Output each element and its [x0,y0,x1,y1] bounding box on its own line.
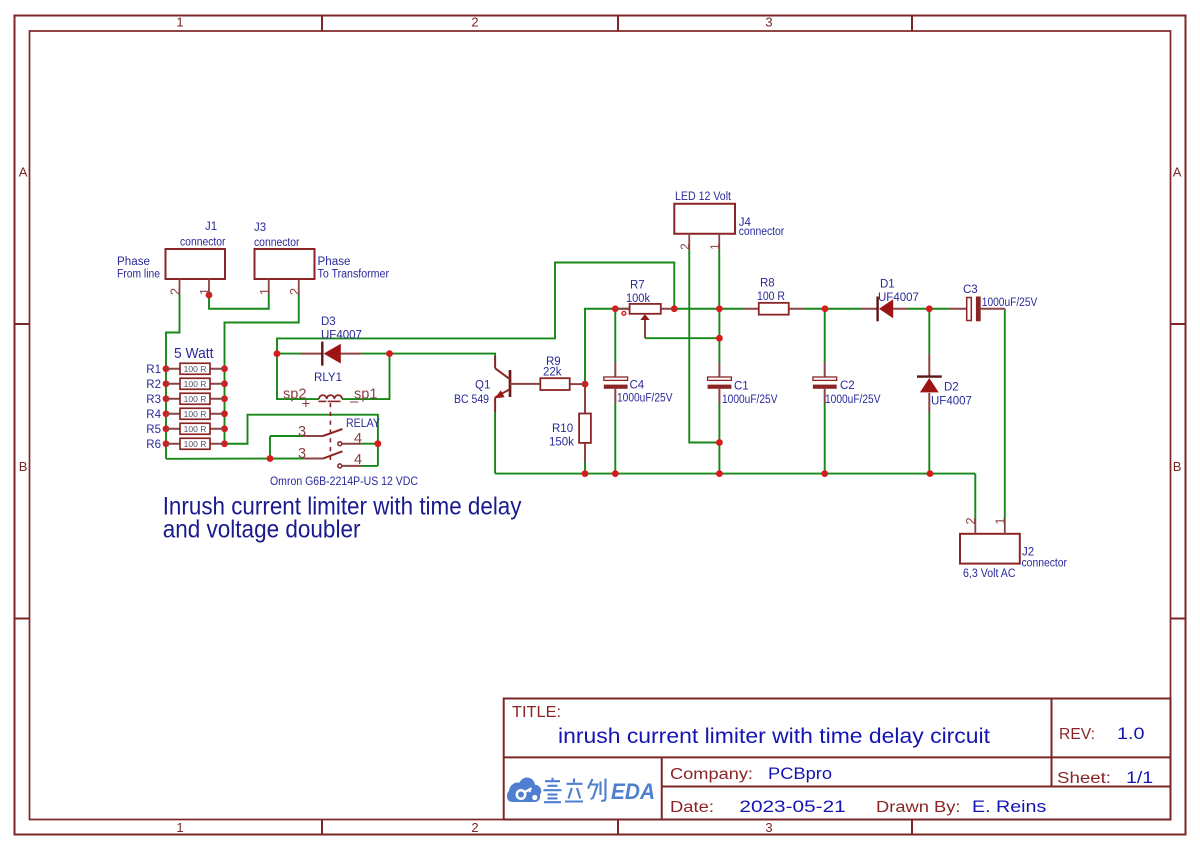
junction R6 left [163,440,170,447]
svg-text:REV:: REV: [1059,726,1095,743]
diode D3 [301,316,362,366]
svg-text:1: 1 [176,15,183,30]
svg-text:+: + [302,396,311,413]
resistor R9 [510,356,585,390]
svg-text:R3: R3 [146,394,161,406]
svg-text:E. Reins: E. Reins [972,797,1046,816]
svg-text:B: B [19,459,28,474]
svg-text:connector: connector [1022,558,1068,570]
junction rail D2 [927,470,934,477]
svg-text:22k: 22k [543,367,562,379]
svg-text:inrush current limiter with ti: inrush current limiter with time delay c… [558,725,990,748]
wire left bus to relay common [166,458,303,460]
svg-text:Company:: Company: [670,766,753,783]
wire coil right to D3 right node [342,354,390,400]
svg-text:To Transformer: To Transformer [318,269,390,281]
capacitor C1 [708,363,778,407]
svg-text:D3: D3 [321,316,336,328]
wire C3 right to J2 pin1 [1004,309,1006,519]
connector J2 [960,517,1067,580]
wire switch1 contact to vertical [361,443,378,445]
svg-text:Phase: Phase [318,256,351,268]
capacitor C2 [813,363,881,407]
wire D1 node to C3 [929,308,949,310]
connector J1 [166,221,226,295]
svg-text:BC 549: BC 549 [454,394,489,406]
svg-text:UF4007: UF4007 [878,292,919,304]
label Phase To Transformer [318,256,390,281]
svg-text:1000uF/25V: 1000uF/25V [722,394,778,406]
svg-text:2: 2 [168,288,183,295]
junction R6 right [221,440,228,447]
svg-text:100 R: 100 R [757,291,785,303]
junction D1-D2-C3 node [926,305,933,312]
wire relay switch1 left to switch2 [269,436,271,459]
wire D1 right lead to node [908,308,929,310]
junction R4 left [163,410,170,417]
capacitor C3 [949,284,1038,321]
svg-text:6,3 Volt AC: 6,3 Volt AC [963,568,1016,580]
svg-text:C4: C4 [630,380,645,392]
svg-text:1: 1 [710,243,722,249]
svg-text:R5: R5 [146,424,161,436]
svg-text:150k: 150k [549,437,574,449]
svg-text:1/1: 1/1 [1126,768,1153,787]
resistor R10 [549,388,591,462]
svg-text:2023-05-21: 2023-05-21 [739,797,845,816]
svg-text:J1: J1 [205,221,217,233]
svg-text:1: 1 [992,517,1007,524]
wire switch1 lead [270,435,303,437]
junction R2 right [221,380,228,387]
svg-text:3: 3 [298,424,306,440]
wire D3 left node up and right to R7 right node [277,263,674,354]
JLC EDA cloud mark [507,778,541,803]
svg-text:100 R: 100 R [184,424,207,434]
wire R7 right node to R8 [674,308,744,310]
svg-text:connector: connector [739,226,785,238]
junction R1 left [163,365,170,372]
label Phase From line [117,256,160,281]
svg-text:From line: From line [117,269,160,281]
relay RLY1 coil [283,372,378,462]
svg-text:TITLE:: TITLE: [512,704,561,721]
svg-text:RELAY: RELAY [346,418,380,430]
svg-text:R6: R6 [146,439,161,451]
wire switch2 contact to vertical [361,465,378,467]
svg-text:1: 1 [197,288,212,295]
wire J4 pin2 down to C1 bottom node [689,250,719,443]
junction R8 right node [822,305,829,312]
junction R4 right [221,410,228,417]
svg-text:Phase: Phase [117,256,150,268]
trimmer R7 [615,280,674,339]
wire R8 right to D1 [804,308,863,310]
transistor Q1 [454,356,510,412]
svg-text:EDA: EDA [611,779,655,804]
svg-text:Date:: Date: [670,799,714,816]
junction D3 cathode node [274,350,281,357]
wire R9 right node to R7 left node [585,309,630,384]
junction R9-R10 node [582,381,589,388]
wire Q1 emitter down to ground rail [494,412,496,474]
heading note [163,493,522,544]
svg-text:2: 2 [287,288,302,295]
junction R5 right [221,425,228,432]
junction rail C4 [612,470,619,477]
resistor R2 [146,378,224,391]
wire D3 right lead [361,353,390,355]
svg-text:5 Watt: 5 Watt [174,346,214,362]
wire D3 right node to Q1 collector [390,354,496,357]
junction rail C1 [716,470,723,477]
嘉立创 faux glyphs [544,778,606,802]
ground rail [495,473,975,475]
junction J4 pin1 node [716,305,723,312]
svg-text:100 R: 100 R [184,379,207,389]
svg-text:4: 4 [354,431,362,447]
svg-text:C1: C1 [734,381,749,393]
wire C4 branch [614,309,616,363]
logo [507,778,655,805]
svg-text:–: – [350,393,359,410]
wire J2 pin2 [974,474,976,519]
svg-text:2: 2 [471,15,478,30]
junction R3 left [163,395,170,402]
wire C4 bottom [614,403,616,474]
junction R7 right node [671,305,678,312]
wire R7 wiper to C1 node [645,337,719,339]
resistor R8 [744,278,804,315]
svg-text:RLY1: RLY1 [314,372,342,384]
svg-text:1: 1 [176,820,183,835]
wire D3 left lead [277,353,301,355]
wire C1 column [718,309,720,363]
svg-text:C2: C2 [840,380,855,392]
junction R1 right [221,365,228,372]
svg-text:1: 1 [257,288,272,295]
svg-text:1000uF/25V: 1000uF/25V [617,393,673,405]
wire D2 bottom to rail [928,412,930,474]
wire R6 to relay contacts [225,415,378,466]
svg-text:Drawn By:: Drawn By: [876,799,961,816]
resistor R1 [146,363,224,376]
svg-text:R4: R4 [146,409,161,421]
svg-text:A: A [19,165,28,180]
junction D3 anode node [386,350,393,357]
svg-text:100 R: 100 R [184,439,207,449]
resistor bank R1-R6 [146,363,224,451]
svg-text:2: 2 [963,517,978,524]
wire J1 pin1 to J3 pin1 [209,293,269,309]
svg-text:LED 12 Volt: LED 12 Volt [675,191,732,203]
svg-text:1.0: 1.0 [1117,724,1145,743]
diode D1 [862,279,919,322]
svg-text:A: A [1173,165,1182,180]
svg-text:D2: D2 [944,382,959,394]
junction relay contact 4 [375,440,382,447]
resistor R4 [146,408,224,421]
wire R10 top lead [584,384,586,389]
junction rail R10 [582,470,589,477]
junction R3 right [221,395,228,402]
wire J1 pin2 to left bus [166,293,180,459]
svg-text:Sheet:: Sheet: [1057,770,1111,787]
junction R7 wiper node [716,335,723,342]
svg-text:Omron G6B-2214P-US 12 VDC: Omron G6B-2214P-US 12 VDC [270,476,418,488]
wire C2 branch [824,309,826,363]
svg-text:UF4007: UF4007 [931,396,972,408]
wire D3 left node down to coil [277,354,319,400]
svg-text:100 R: 100 R [184,364,207,374]
svg-text:3: 3 [765,15,772,30]
svg-text:100 R: 100 R [184,409,207,419]
junction relay common [267,455,274,462]
capacitor C4 [604,363,673,405]
svg-text:C3: C3 [963,284,978,296]
junction R5 left [163,425,170,432]
svg-text:2: 2 [680,243,692,249]
svg-text:1000uF/25V: 1000uF/25V [982,297,1038,309]
svg-text:2: 2 [471,820,478,835]
junction rail C2 [821,470,828,477]
junction R2 left [163,380,170,387]
resistor R5 [146,423,224,436]
svg-text:and voltage doubler: and voltage doubler [163,516,361,544]
junction R7 left node [612,305,619,312]
wire J4 pin1 down [718,250,720,309]
svg-text:3: 3 [765,820,772,835]
connector J4 / LED [674,191,784,250]
connector J3 [254,222,315,295]
wire R10 bottom lead [584,462,586,474]
svg-text:3: 3 [298,446,306,462]
svg-text:R7: R7 [630,280,645,292]
svg-text:J3: J3 [254,222,266,234]
junction C1 bottom node [716,439,723,446]
svg-text:100k: 100k [626,293,650,305]
wire J3 pin2 to right bus [225,293,299,444]
svg-text:connector: connector [180,237,226,249]
resistor R3 [146,393,224,406]
resistor R6 [146,438,224,451]
svg-text:Q1: Q1 [475,380,490,392]
svg-text:PCBpro: PCBpro [768,764,832,783]
title block [504,699,1171,820]
svg-text:connector: connector [254,237,300,249]
diode D2 [917,354,972,412]
svg-text:R1: R1 [146,364,161,376]
svg-text:R8: R8 [760,278,775,290]
svg-text:UF4007: UF4007 [321,330,362,342]
svg-text:1000uF/25V: 1000uF/25V [825,394,881,406]
svg-text:R2: R2 [146,379,161,391]
wire D1 node down to D2 [928,309,930,354]
svg-text:100 R: 100 R [184,394,207,404]
svg-text:4: 4 [354,452,362,468]
relay contacts [298,418,380,468]
svg-text:D1: D1 [880,279,895,291]
junction J1 pin1 node [206,292,213,299]
svg-text:R10: R10 [552,423,573,435]
svg-text:B: B [1173,459,1182,474]
